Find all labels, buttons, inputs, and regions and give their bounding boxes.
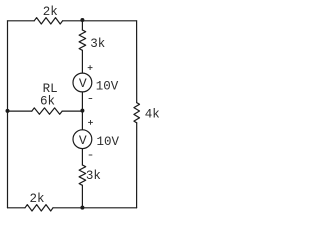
wire lower middle lead to bottom <box>81 185 83 208</box>
node junction dot middle <box>80 109 84 113</box>
wire top-right segment <box>63 20 137 22</box>
svg-text:10V: 10V <box>96 79 119 93</box>
wire between V1 and middle node <box>81 92 83 129</box>
wire between V2 and lower 3k <box>81 149 83 165</box>
svg-text:3k: 3k <box>90 37 105 51</box>
polarity plus of V2 <box>88 121 93 123</box>
polarity minus of V1 <box>89 98 93 100</box>
resistor R 3k (lower middle) <box>79 165 86 185</box>
resistor RL 6k <box>32 108 62 114</box>
svg-text:3k: 3k <box>86 169 101 183</box>
svg-text:6k: 6k <box>40 94 55 108</box>
polarity plus of V1 <box>88 67 93 69</box>
resistor R 4k (right) <box>134 103 140 123</box>
wire RL branch right lead <box>62 110 82 112</box>
wire bottom-left segment <box>8 207 26 209</box>
resistor R 3k (upper middle) <box>79 30 86 50</box>
resistor R 2k (bottom) <box>25 205 53 211</box>
svg-text:2k: 2k <box>29 192 44 206</box>
wire right lower segment <box>136 123 138 208</box>
wire bottom-right segment <box>53 207 137 209</box>
voltage source V2 10V circle <box>73 130 92 149</box>
resistor R 2k (top) <box>34 18 62 24</box>
polarity minus of V2 <box>89 154 93 156</box>
node junction dot left middle <box>6 109 10 113</box>
svg-text:V: V <box>79 76 87 91</box>
wire right upper segment <box>136 21 138 103</box>
wire left vertical <box>7 21 9 208</box>
wire between 3k and source V1 <box>81 50 83 73</box>
node junction dot top <box>80 18 84 22</box>
svg-text:10V: 10V <box>96 135 119 149</box>
wire RL branch left lead <box>8 110 32 112</box>
voltage source V1 10V circle <box>73 73 92 92</box>
wire middle branch top lead <box>81 21 83 30</box>
svg-text:2k: 2k <box>43 5 58 19</box>
wire top-left segment <box>8 20 35 22</box>
svg-text:4k: 4k <box>145 108 160 122</box>
node junction dot bottom <box>80 206 84 210</box>
svg-text:V: V <box>79 133 87 148</box>
